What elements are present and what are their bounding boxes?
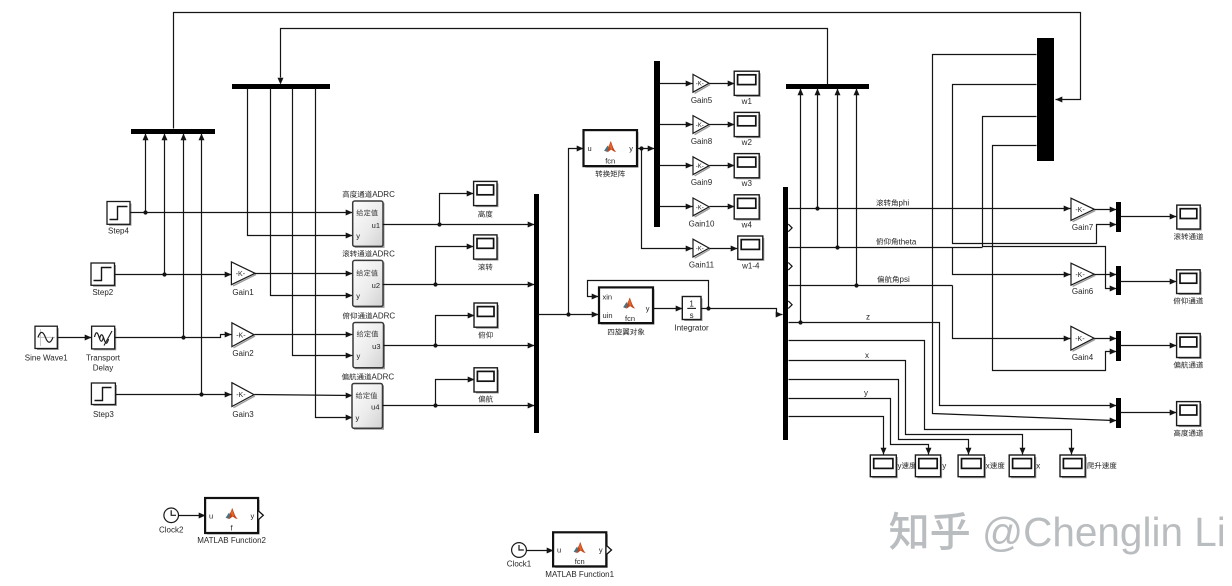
- wire Mux A output to top-right demux: [174, 13, 1081, 129]
- wire ref1 (height) to 高度通道 mux: [933, 55, 1117, 421]
- svg-text:-K-: -K-: [1075, 272, 1085, 279]
- svg-text:Gain3: Gain3: [232, 410, 254, 419]
- wire u4 to center mux: [383, 405, 535, 407]
- svg-text:Gain2: Gain2: [232, 349, 254, 358]
- wire Gain6 to mux: [1095, 274, 1117, 276]
- svg-text:y: y: [356, 232, 360, 241]
- wire branch down to Gain11: [642, 149, 693, 249]
- svg-text:fcn: fcn: [625, 314, 635, 323]
- svg-text:u2: u2: [372, 281, 380, 290]
- junction Step2-MuxA: [162, 272, 166, 276]
- gain Gain10: [695, 208, 711, 217]
- wire demux B out3 to ADRC3 y: [293, 89, 353, 356]
- svg-text:y: y: [599, 546, 603, 555]
- wire u1 to center mux: [383, 224, 535, 226]
- scope 俯仰: [476, 305, 498, 328]
- scope y速度: [872, 457, 897, 477]
- svg-text:ADRC: ADRC: [373, 312, 396, 321]
- wire Gain11 to w1-4: [710, 248, 738, 250]
- wire demux to Gain5: [660, 83, 693, 85]
- output port chevron MATLAB Function2: [258, 511, 263, 520]
- source block Step3: [93, 385, 116, 405]
- wire integrator out to big demux: [701, 309, 783, 315]
- gain Gain11: [695, 249, 711, 258]
- wire Gain5 to w1: [710, 83, 735, 85]
- gain Gain1: [233, 275, 256, 286]
- source block Step4: [109, 204, 131, 226]
- wire demux B out1 to ADRC1 y: [248, 89, 353, 236]
- wire u2 to center mux: [383, 284, 535, 286]
- scope 高度通道: [1179, 404, 1201, 427]
- wire ref2 (roll) to 滚转通道 mux: [953, 85, 1117, 244]
- scope 滚转通道: [1179, 207, 1201, 230]
- scope w1-4: [740, 238, 764, 260]
- svg-text:MATLAB Function2: MATLAB Function2: [197, 536, 266, 545]
- svg-text:Gain9: Gain9: [691, 178, 713, 187]
- scope 高度: [476, 183, 498, 206]
- wire mux to scope 俯仰通道: [1121, 281, 1177, 283]
- wire psi to Gain4: [953, 286, 1071, 339]
- wire Transport Delay branch up to Mux A: [183, 134, 185, 338]
- wire Gain10 to w4: [710, 206, 735, 208]
- wire z line to height mux: [789, 323, 1117, 406]
- scope 滚转: [476, 237, 498, 260]
- junction u1 branch: [437, 222, 441, 226]
- watermark 知乎 @Chenglin Li: [890, 509, 1226, 555]
- svg-text:-K-: -K-: [1075, 336, 1085, 343]
- svg-text:ADRC: ADRC: [372, 373, 395, 382]
- wire mux to scope 高度通道: [1121, 412, 1177, 414]
- svg-text:Gain4: Gain4: [1072, 353, 1094, 362]
- wire Step3 branch up to Mux A: [201, 134, 203, 395]
- wire z up to mux C: [800, 89, 802, 323]
- wire Transport Delay to Gain2: [115, 335, 232, 338]
- wire u3 branch to scope: [436, 316, 475, 346]
- subsystem 高度通道ADRC: [355, 203, 384, 247]
- svg-text:Gain1: Gain1: [232, 288, 254, 297]
- svg-text:ADRC: ADRC: [372, 249, 395, 258]
- unconnected port dpsi: [788, 301, 792, 309]
- wire Step4 to ADRC1 setpoint: [131, 212, 353, 214]
- wire center mux to plant uin: [539, 314, 599, 316]
- scope x速度: [960, 457, 985, 477]
- svg-text:y: y: [864, 388, 868, 397]
- wire dz to climb-rate scope: [789, 341, 1072, 455]
- MATLAB Function1 block: [555, 534, 607, 567]
- junction u3 branch: [433, 343, 437, 347]
- junction Gain11 branch: [639, 146, 643, 150]
- svg-text:Clock1: Clock1: [507, 560, 532, 569]
- mux C bar: [786, 84, 869, 89]
- wire Step2 branch up to Mux A: [164, 134, 166, 275]
- svg-text:w1-4: w1-4: [741, 262, 760, 271]
- demux bar plant states: [783, 187, 788, 440]
- svg-text:-K-: -K-: [696, 205, 704, 211]
- svg-text:y: y: [356, 414, 360, 423]
- wire Gain8 to w2: [710, 124, 735, 126]
- clock Clock2: [164, 508, 179, 523]
- svg-text:Gain6: Gain6: [1072, 287, 1094, 296]
- demux B bar: [232, 84, 330, 89]
- wire Step4 branch up to Mux A: [145, 134, 147, 213]
- wire mux to scope 滚转通道: [1121, 216, 1177, 218]
- wire demux to Gain8: [660, 124, 693, 126]
- wire Clock2 to MATLAB Function2: [179, 515, 206, 517]
- label 滚转角phi: [876, 199, 883, 206]
- gain Gain9: [695, 167, 711, 176]
- svg-text:-K-: -K-: [1075, 207, 1085, 214]
- svg-text:w1: w1: [741, 97, 753, 106]
- wire branch up to 转换矩阵 u: [569, 149, 584, 315]
- svg-text:y: y: [898, 461, 902, 470]
- svg-text:MATLAB Function1: MATLAB Function1: [545, 570, 614, 579]
- wire mux to scope 偏航通道: [1121, 345, 1177, 347]
- junction phi to mux C: [815, 206, 819, 210]
- svg-text:theta: theta: [899, 237, 917, 246]
- MATLAB fcn block 四旋翼对象 (plant): [601, 289, 654, 323]
- svg-text:Delay: Delay: [93, 364, 113, 373]
- wire x to x scope: [789, 361, 1023, 455]
- svg-text:u: u: [588, 144, 592, 153]
- gain Gain5: [695, 85, 711, 94]
- wire Step2 to Gain1: [115, 274, 232, 276]
- svg-text:u3: u3: [372, 342, 380, 351]
- wire demux to Gain10: [660, 206, 693, 208]
- mux 高度通道 bar: [1116, 398, 1121, 428]
- wire Gain4 to mux: [1095, 338, 1117, 340]
- svg-text:s: s: [690, 311, 694, 320]
- svg-text:-K-: -K-: [696, 123, 704, 129]
- svg-text:y: y: [629, 144, 633, 153]
- junction Step4-MuxA: [143, 210, 147, 214]
- subsystem 滚转通道ADRC: [355, 262, 384, 307]
- wire theta to Gain6: [953, 248, 1071, 275]
- svg-text:y: y: [356, 291, 360, 300]
- subsystem 偏航通道ADRC: [354, 386, 383, 430]
- svg-text:ADRC: ADRC: [372, 190, 395, 199]
- demux references (flipped, tall black bar): [1037, 38, 1054, 161]
- svg-text:u: u: [557, 546, 561, 555]
- svg-text:w3: w3: [741, 179, 753, 188]
- scope w2: [736, 114, 760, 137]
- mux 偏航通道 bar: [1116, 331, 1121, 361]
- svg-text:Gain11: Gain11: [689, 261, 715, 270]
- source block Sine Wave1: [37, 328, 58, 349]
- svg-text:x: x: [865, 351, 869, 360]
- wire Gain2 to ADRC3 setpoint: [255, 334, 353, 336]
- label 偏航角psi: [877, 276, 884, 283]
- svg-text:1: 1: [689, 300, 694, 309]
- svg-text:Step3: Step3: [93, 410, 114, 419]
- unconnected port dphi: [788, 224, 792, 232]
- wire Gain7 to mux: [1095, 209, 1117, 211]
- demux bar for w gains: [654, 61, 660, 227]
- junction to 转换矩阵: [566, 312, 570, 316]
- wire ref4 (yaw) to 偏航通道 mux: [993, 146, 1117, 371]
- scope w4: [736, 197, 760, 220]
- gain Gain4: [1073, 339, 1096, 351]
- gain Gain3: [234, 396, 256, 408]
- svg-text:fcn: fcn: [575, 557, 585, 566]
- junction psi to mux C: [854, 283, 858, 287]
- wire Mux C output to demux B: [281, 29, 828, 85]
- svg-text:phi: phi: [899, 199, 910, 208]
- junction z to mux C: [798, 320, 802, 324]
- wire feedback to plant xin: [588, 281, 709, 309]
- junction theta to mux C: [835, 245, 839, 249]
- scope 偏航通道: [1179, 336, 1201, 359]
- svg-text:y: y: [942, 461, 946, 470]
- svg-text:u: u: [209, 511, 213, 520]
- scope w3: [736, 156, 760, 179]
- svg-text:x: x: [1036, 461, 1040, 470]
- svg-text:Step4: Step4: [108, 227, 129, 236]
- wire demux B out4 to ADRC4 y: [316, 89, 353, 418]
- svg-text:Gain7: Gain7: [1072, 223, 1094, 232]
- svg-text:-K-: -K-: [236, 392, 246, 399]
- wire demux B out2 to ADRC2 y: [271, 89, 353, 296]
- wire y to y scope: [789, 399, 929, 455]
- wire 转换矩阵 y to gains demux: [637, 148, 655, 150]
- svg-text:psi: psi: [900, 275, 910, 284]
- svg-text:Integrator: Integrator: [674, 324, 709, 333]
- mux center bar (control signals): [534, 194, 539, 433]
- scope y: [917, 457, 941, 477]
- svg-text:fcn: fcn: [605, 156, 615, 165]
- wire phi up to mux C: [817, 89, 819, 209]
- svg-text:Step2: Step2: [92, 288, 113, 297]
- svg-text:-K-: -K-: [696, 164, 704, 170]
- wire dy to y-speed scope: [789, 417, 884, 455]
- svg-text:y: y: [357, 352, 361, 361]
- wire plant y to integrator: [653, 308, 683, 310]
- svg-text:u1: u1: [372, 221, 380, 230]
- mux 俯仰通道 bar: [1116, 266, 1121, 295]
- junction TransportDelay-MuxA: [181, 335, 185, 339]
- svg-text:xin: xin: [603, 292, 613, 301]
- wire u3 to center mux: [384, 345, 535, 347]
- svg-text:u4: u4: [371, 403, 379, 412]
- wire u4 branch to scope: [436, 380, 475, 406]
- wire ref3 (pitch) to 俯仰通道 mux: [983, 117, 1117, 289]
- svg-text:Clock2: Clock2: [159, 525, 184, 534]
- scope 偏航: [476, 370, 498, 393]
- svg-text:-K-: -K-: [696, 82, 704, 88]
- svg-text:Gain5: Gain5: [691, 96, 713, 105]
- wire phi to Gain7: [789, 208, 1071, 210]
- wire u1 branch to scope: [440, 194, 474, 225]
- wire Step3 to Gain3: [116, 394, 232, 396]
- gain Gain6: [1073, 275, 1096, 286]
- svg-text:-K-: -K-: [236, 332, 246, 339]
- scope x: [1011, 457, 1035, 477]
- svg-text:@Chenglin Li: @Chenglin Li: [982, 509, 1226, 555]
- gain Gain7: [1073, 211, 1096, 222]
- svg-text:Sine Wave1: Sine Wave1: [25, 354, 68, 363]
- wire Clock1 to MATLAB Function1: [527, 550, 554, 552]
- junction u4 branch: [433, 403, 437, 407]
- svg-text:uin: uin: [603, 311, 613, 320]
- clock Clock1: [512, 543, 527, 558]
- svg-text:-K-: -K-: [236, 271, 246, 278]
- gain Gain8: [695, 126, 711, 135]
- unconnected port dtheta: [788, 263, 792, 271]
- wire Gain3 to ADRC4 setpoint: [255, 395, 353, 396]
- MATLAB Function2 block: [207, 500, 259, 534]
- mux 滚转通道 bar: [1116, 202, 1121, 232]
- svg-text:-K-: -K-: [696, 247, 704, 253]
- svg-text:x: x: [986, 461, 990, 470]
- MATLAB fcn block 转换矩阵: [586, 132, 638, 167]
- wire Gain1 to ADRC2 setpoint: [255, 273, 353, 275]
- svg-text:y: y: [251, 511, 255, 520]
- wire Gain9 to w3: [710, 165, 735, 167]
- scope 爬升速度: [1062, 457, 1086, 477]
- svg-text:Gain10: Gain10: [689, 219, 715, 228]
- scope 俯仰通道: [1179, 272, 1201, 294]
- svg-text:y: y: [646, 304, 650, 313]
- wire u2 branch to scope: [436, 247, 474, 285]
- junction feedback: [706, 306, 710, 310]
- wire psi line: [789, 285, 953, 287]
- wire demux to Gain9: [660, 165, 693, 167]
- wire psi up to mux C: [856, 89, 858, 286]
- source block Step2: [93, 265, 115, 286]
- svg-text:w4: w4: [741, 220, 753, 229]
- wire theta line: [789, 247, 983, 249]
- wire theta up to mux C: [837, 89, 839, 248]
- gain Gain2: [234, 336, 256, 348]
- junction Step3-MuxA: [199, 392, 203, 396]
- wire dx to x-speed scope: [789, 380, 969, 455]
- output port chevron MATLAB Function1: [607, 546, 612, 555]
- svg-text:w2: w2: [741, 138, 753, 147]
- label 俯仰角theta: [876, 238, 883, 245]
- svg-text:Transport: Transport: [86, 354, 121, 363]
- subsystem 俯仰通道ADRC: [355, 325, 384, 369]
- integrator block: [684, 299, 701, 321]
- scope w1: [736, 73, 760, 96]
- junction u2 branch: [433, 282, 437, 286]
- svg-text:z: z: [866, 312, 870, 321]
- svg-text:Gain8: Gain8: [691, 137, 713, 146]
- wire Sine Wave1 to Transport Delay: [58, 337, 92, 339]
- mux A bar: [131, 129, 215, 134]
- block Transport Delay: [94, 328, 116, 349]
